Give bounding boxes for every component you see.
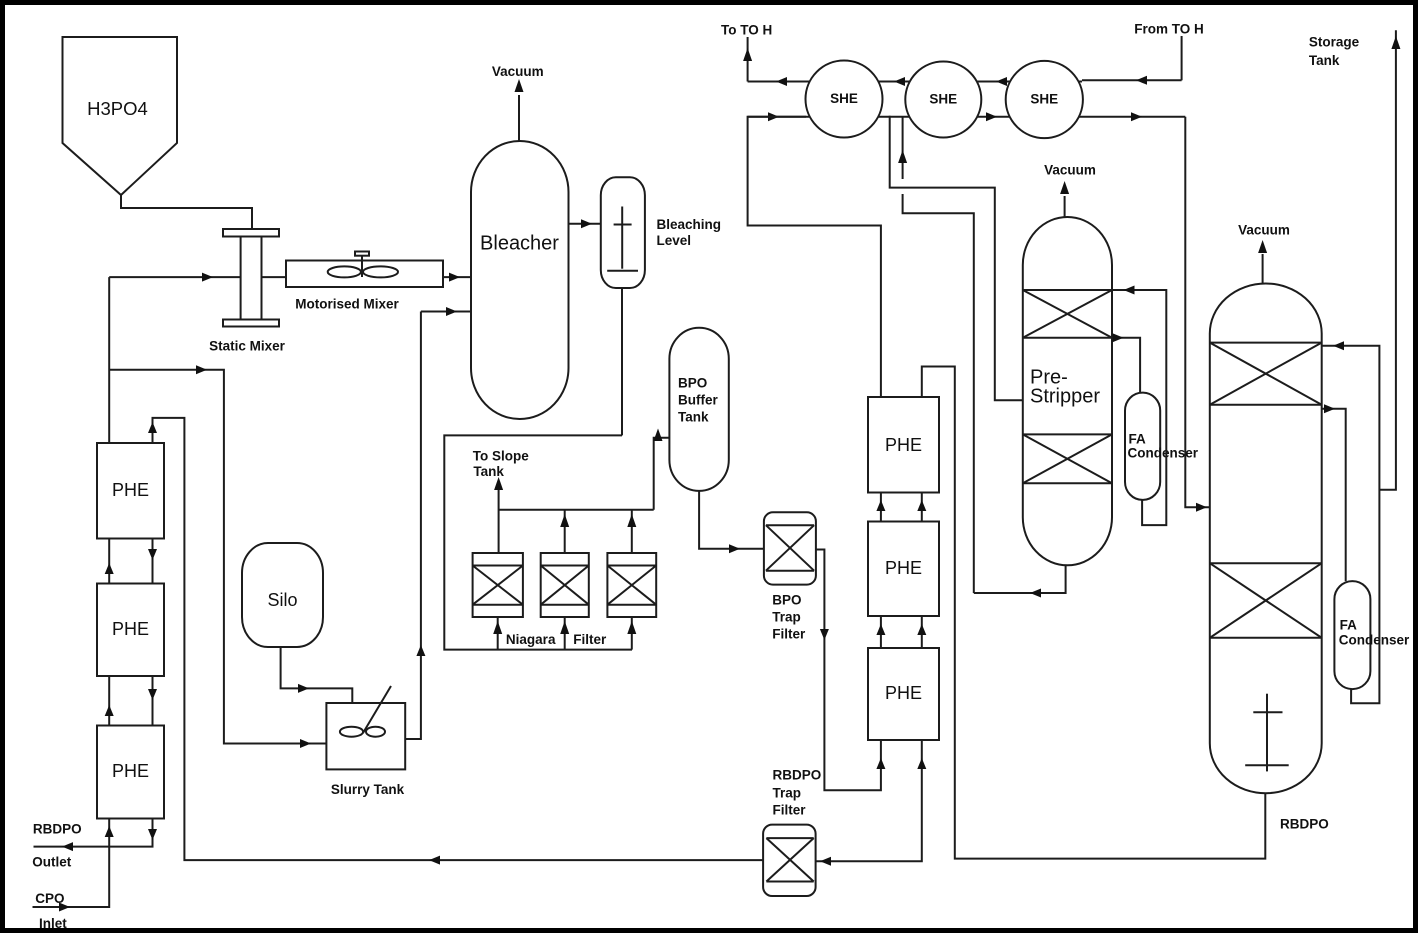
wire RBDPO return into PHE L1 top [148,418,763,865]
svg-text:Niagara: Niagara [506,632,556,647]
svg-text:PHE: PHE [112,761,149,781]
wire PHE M1-M2 right [917,493,926,522]
svg-text:RBDPO: RBDPO [1280,817,1329,832]
PHE M1 [868,397,939,493]
wire filters to BPO buffer tank [654,429,670,510]
hopper H3PO4 [63,37,178,195]
CPO riser PHE to static mixer [108,277,110,443]
svg-text:BPO: BPO [772,593,801,608]
wire pre-stripper bottoms to SHE2 [898,117,974,593]
wire PHE M1 to SHE1 [748,112,881,397]
svg-text:Buffer: Buffer [678,393,718,408]
arrows SHE bottom line [986,112,1142,121]
svg-text:SHE: SHE [830,91,858,106]
wire FA condenser 2 return [1322,341,1380,703]
svg-text:From TO H: From TO H [1134,22,1204,37]
FA condenser 1 [1125,393,1199,500]
svg-text:Outlet: Outlet [32,855,72,870]
wire BPO tank to BPO trap filter [699,491,764,553]
svg-text:To TO H: To TO H [721,23,772,38]
wire stripper RBDPO to PHE M1 top [922,367,1266,859]
wire CPO inlet to static mixer [109,273,240,282]
svg-text:PHE: PHE [885,435,922,455]
vessel Stripper [1210,284,1322,794]
wire CPO inlet bottom [33,819,114,912]
filter top header [499,488,654,553]
svg-text:Slurry Tank: Slurry Tank [331,782,405,797]
SHE E1 [806,61,883,138]
wire PHE L2-L3 left [105,676,114,726]
SHE E3 [1006,61,1083,138]
wire motorised mixer to bleacher [443,273,471,282]
to slope tank arrow [473,449,529,490]
svg-text:Silo: Silo [267,590,297,610]
FA condenser 2 [1334,581,1410,689]
svg-text:FA: FA [1129,432,1147,447]
svg-text:PHE: PHE [885,683,922,703]
svg-text:Trap: Trap [773,786,802,801]
wire bleacher to bleaching level [569,219,601,228]
svg-text:PHE: PHE [112,480,149,500]
wire PHE M1-M2 left [876,493,885,522]
svg-text:Inlet: Inlet [39,916,67,931]
svg-text:Filter: Filter [573,632,607,647]
svg-text:Vacuum: Vacuum [1044,163,1096,178]
wire BPO trap filter to PHE M3 [816,550,886,791]
wire drain header to filters [444,435,632,649]
svg-text:Tank: Tank [678,410,709,425]
svg-text:Tank: Tank [1309,53,1340,68]
bleaching level pot [601,177,721,288]
wire PHE L1-L2 right [148,539,157,584]
svg-text:PHE: PHE [112,619,149,639]
svg-text:Bleaching: Bleaching [657,217,722,232]
filter bottom feed arrows [493,617,636,650]
vessel Pre-Stripper [1023,217,1112,565]
svg-text:Level: Level [657,233,692,248]
wire RBDPO outlet [34,819,158,852]
svg-text:FA: FA [1340,618,1358,633]
SHE bottom line [748,116,1186,118]
pre-stripper vacuum [1044,163,1096,217]
PHE L3 [97,726,164,819]
static mixer SM [209,229,286,354]
svg-text:SHE: SHE [1030,92,1058,107]
svg-text:Condenser: Condenser [1128,446,1199,461]
PHE M3 [868,648,939,740]
svg-text:To Slope: To Slope [473,449,529,464]
PHE M2 [868,522,939,617]
wire slurry riser to bleacher inlet [421,307,471,316]
arrows SHE top line [776,76,1147,86]
From TO H [1134,22,1204,81]
wire pre-stripper to FA condenser 1 [1112,333,1140,392]
svg-text:BPO: BPO [678,376,707,391]
wire to storage tank [1309,30,1401,490]
niagara filter F2 [541,553,589,617]
svg-text:Trap: Trap [772,610,801,625]
slurry tank [326,686,405,797]
svg-text:Motorised Mixer: Motorised Mixer [295,297,399,312]
svg-text:Static Mixer: Static Mixer [209,339,286,354]
wire silo to slurry tank [281,647,353,703]
vessel BPO buffer tank [669,328,728,491]
svg-text:Bleacher: Bleacher [480,232,559,254]
svg-text:SHE: SHE [929,92,957,107]
wire PHE L2-L3 right [148,676,157,726]
wire PHE M2-M3 right [917,616,926,648]
wire FA condenser 1 return [1112,286,1166,526]
SHE top line [748,80,1182,81]
wire stripper to FA condenser 2 [1322,404,1346,581]
svg-text:Vacuum: Vacuum [492,64,544,79]
niagara filter F3 [607,553,656,617]
wire static mixer to motorised mixer [262,276,287,278]
niagara filter F1 [473,553,523,617]
motorised mixer MM [286,252,443,312]
wire PHE L1-L2 left [105,539,114,584]
wire pre-stripper bottom outlet [974,565,1066,597]
PHE L2 [97,584,164,677]
wire SHE1 to pre-stripper feed [890,116,1023,401]
wire slurry tank outlet riser to bleacher [405,312,425,740]
svg-text:Storage: Storage [1309,35,1360,50]
wire tee to slurry tank [109,365,326,748]
RBDPO trap filter [763,768,821,896]
PHE L1 [97,443,164,539]
vessel Bleacher [471,141,569,419]
wire bleaching level drain [621,288,623,435]
vessel Silo [242,543,323,647]
wire PHE M2-M3 left [876,616,885,648]
SHE E2 [905,62,981,138]
svg-text:PHE: PHE [885,558,922,578]
stripper vacuum [1238,223,1290,284]
svg-text:CPO: CPO [35,891,64,906]
svg-text:H3PO4: H3PO4 [87,98,148,119]
wire SHE3 to stripper feed [1185,117,1210,512]
svg-text:Filter: Filter [773,803,807,818]
bleacher vacuum line [492,64,544,141]
svg-text:RBDPO: RBDPO [773,768,822,783]
svg-text:RBDPO: RBDPO [33,822,82,837]
To TO H [721,23,772,82]
wire hopper to static mixer [121,195,252,229]
svg-text:Condenser: Condenser [1339,633,1410,648]
BPO trap filter [764,512,816,641]
svg-text:Stripper: Stripper [1030,385,1100,407]
wire PHE M3 to RBDPO trap filter [816,740,926,866]
svg-text:Tank: Tank [473,464,504,479]
svg-text:Vacuum: Vacuum [1238,223,1290,238]
svg-text:Filter: Filter [772,627,806,642]
